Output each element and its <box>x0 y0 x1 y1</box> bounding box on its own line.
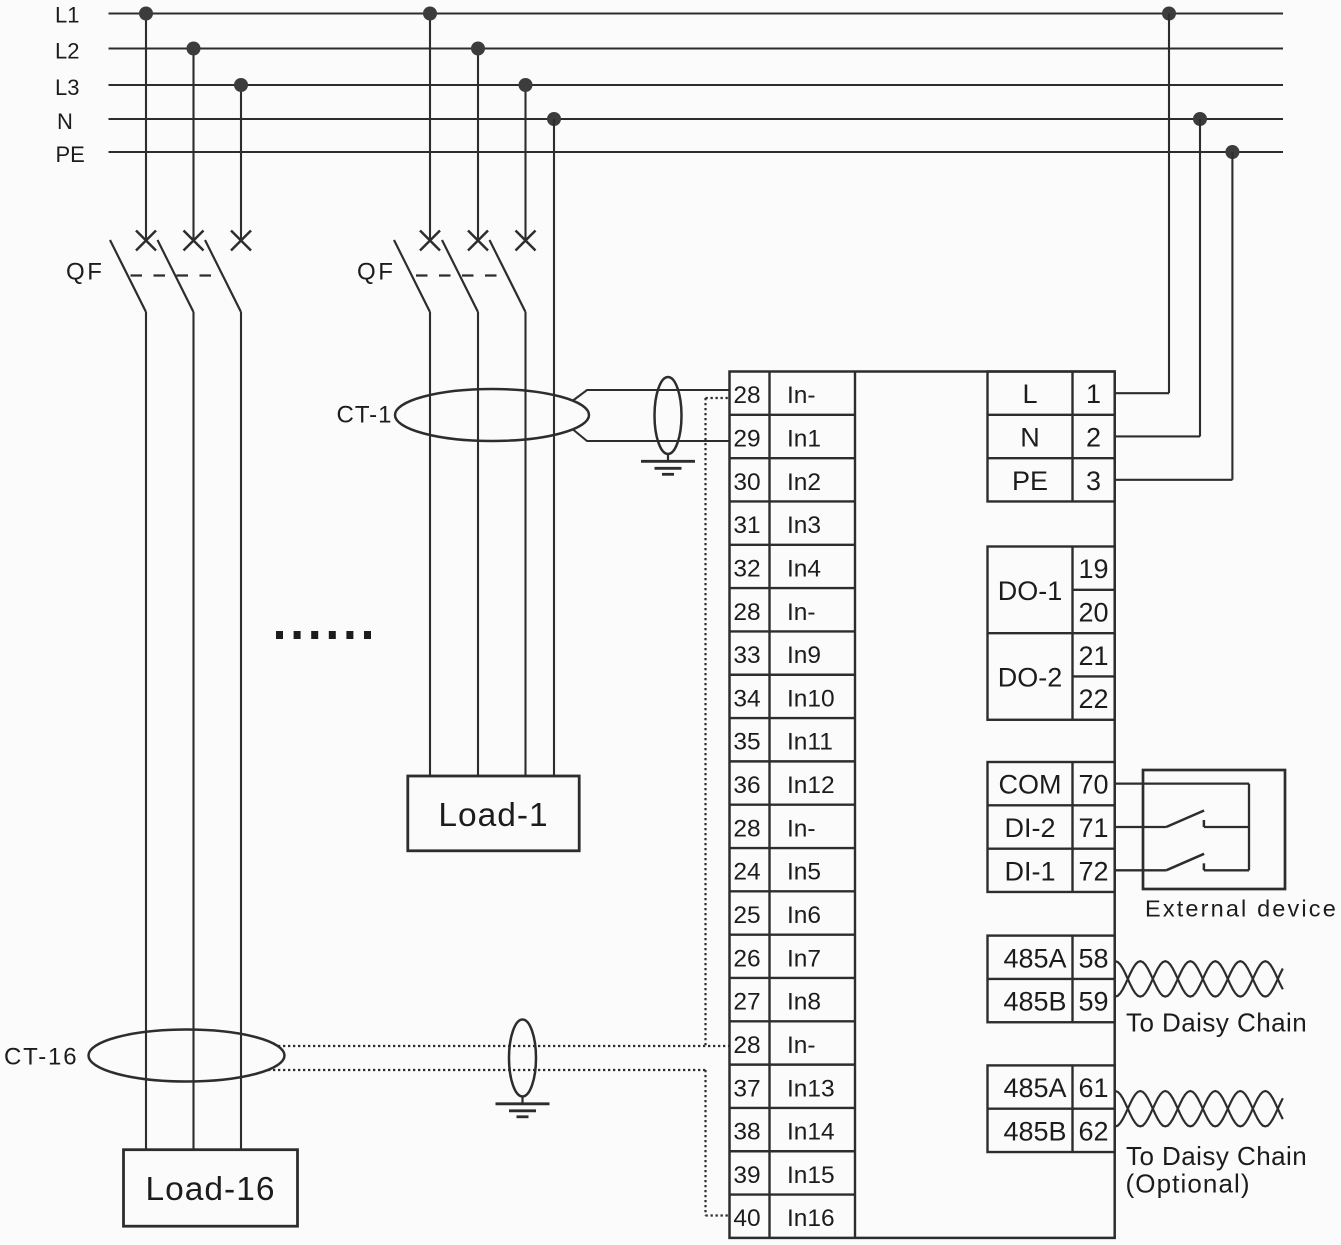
svg-text:35: 35 <box>733 729 760 756</box>
svg-text:In12: In12 <box>787 772 835 799</box>
svg-text:31: 31 <box>733 512 760 539</box>
svg-text:Load-16: Load-16 <box>146 1171 276 1208</box>
svg-text:25: 25 <box>733 902 760 929</box>
svg-text:L: L <box>1022 379 1037 409</box>
svg-text:In-: In- <box>787 1032 816 1059</box>
svg-text:N: N <box>57 109 73 134</box>
svg-text:In13: In13 <box>787 1075 835 1102</box>
svg-text:485B: 485B <box>1003 1116 1066 1146</box>
svg-text:39: 39 <box>733 1162 760 1189</box>
svg-text:DI-1: DI-1 <box>1004 856 1055 886</box>
svg-text:COM: COM <box>999 770 1062 800</box>
svg-text:29: 29 <box>733 426 760 453</box>
svg-text:L3: L3 <box>55 75 79 100</box>
svg-text:30: 30 <box>733 469 760 496</box>
svg-text:In-: In- <box>787 599 816 626</box>
svg-text:28: 28 <box>733 599 760 626</box>
svg-text:In15: In15 <box>787 1162 835 1189</box>
svg-text:N: N <box>1020 423 1040 453</box>
svg-text:External device: External device <box>1145 896 1338 922</box>
svg-text:28: 28 <box>733 815 760 842</box>
svg-text:26: 26 <box>733 945 760 972</box>
svg-text:In6: In6 <box>787 902 821 929</box>
svg-text:In7: In7 <box>787 945 821 972</box>
svg-text:L1: L1 <box>55 2 79 27</box>
svg-text:32: 32 <box>733 555 760 582</box>
svg-text:33: 33 <box>733 642 760 669</box>
svg-text:19: 19 <box>1078 554 1108 584</box>
svg-text:To Daisy Chain: To Daisy Chain <box>1126 1141 1307 1171</box>
svg-text:(Optional): (Optional) <box>1126 1168 1251 1198</box>
svg-text:To Daisy Chain: To Daisy Chain <box>1126 1008 1307 1038</box>
svg-text:62: 62 <box>1078 1116 1108 1146</box>
svg-text:37: 37 <box>733 1075 760 1102</box>
svg-text:QF: QF <box>357 258 396 285</box>
svg-text:QF: QF <box>66 258 105 285</box>
svg-text:Load-1: Load-1 <box>438 797 548 834</box>
svg-text:72: 72 <box>1078 856 1108 886</box>
svg-text:70: 70 <box>1078 770 1108 800</box>
svg-text:In8: In8 <box>787 989 821 1016</box>
svg-text:24: 24 <box>733 859 760 886</box>
svg-text:L2: L2 <box>55 38 79 63</box>
svg-text:In-: In- <box>787 815 816 842</box>
svg-text:3: 3 <box>1086 466 1101 496</box>
svg-text:In14: In14 <box>787 1119 835 1146</box>
svg-text:21: 21 <box>1078 641 1108 671</box>
svg-text:22: 22 <box>1078 684 1108 714</box>
svg-text:In4: In4 <box>787 555 821 582</box>
svg-text:CT-1: CT-1 <box>336 401 392 428</box>
svg-text:485A: 485A <box>1003 943 1066 973</box>
svg-text:In9: In9 <box>787 642 821 669</box>
svg-text:40: 40 <box>733 1205 760 1232</box>
svg-text:In2: In2 <box>787 469 821 496</box>
svg-text:20: 20 <box>1078 598 1108 628</box>
svg-text:28: 28 <box>733 1032 760 1059</box>
svg-text:DI-2: DI-2 <box>1004 813 1055 843</box>
svg-text:DO-1: DO-1 <box>998 576 1063 606</box>
svg-text:59: 59 <box>1078 987 1108 1017</box>
svg-text:In16: In16 <box>787 1205 835 1232</box>
svg-text:61: 61 <box>1078 1073 1108 1103</box>
svg-text:28: 28 <box>733 382 760 409</box>
svg-text:1: 1 <box>1086 379 1101 409</box>
svg-text:In1: In1 <box>787 426 821 453</box>
svg-text:485A: 485A <box>1003 1073 1066 1103</box>
svg-text:PE: PE <box>56 142 85 167</box>
svg-text:27: 27 <box>733 989 760 1016</box>
svg-text:38: 38 <box>733 1119 760 1146</box>
svg-text:In11: In11 <box>787 729 833 756</box>
svg-text:In10: In10 <box>787 685 835 712</box>
svg-text:In3: In3 <box>787 512 821 539</box>
svg-text:2: 2 <box>1086 423 1101 453</box>
svg-text:PE: PE <box>1012 466 1048 496</box>
svg-text:CT-16: CT-16 <box>4 1044 78 1071</box>
svg-text:34: 34 <box>733 685 760 712</box>
svg-text:36: 36 <box>733 772 760 799</box>
svg-text:DO-2: DO-2 <box>998 663 1063 693</box>
svg-text:58: 58 <box>1078 943 1108 973</box>
svg-text:485B: 485B <box>1003 987 1066 1017</box>
svg-text:In-: In- <box>787 382 816 409</box>
svg-text:In5: In5 <box>787 859 821 886</box>
svg-text:71: 71 <box>1078 813 1108 843</box>
